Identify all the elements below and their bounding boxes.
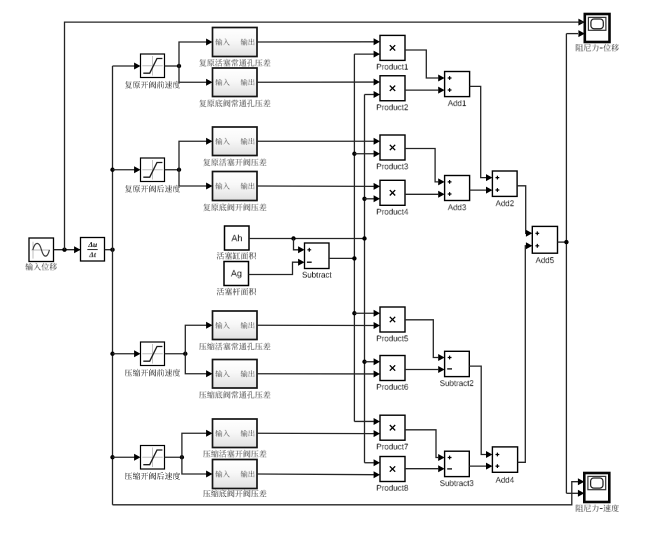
product block Product5 <box>380 307 405 332</box>
wire branch up to sub1 <box>179 42 207 66</box>
label text "Add4" under Add4 <box>496 477 514 483</box>
arrowhead into Product8 in1 <box>374 459 380 466</box>
label text "Subtract2" under Subtract2 <box>440 380 474 386</box>
wire velocity to sat1 <box>113 65 135 67</box>
wire sine output to derivative input <box>54 249 81 251</box>
wire Product5 out to Subtract2 in1 <box>405 320 438 358</box>
wire piston bus tap to Product4 in2 <box>365 198 374 200</box>
arrowhead into Product5 in1 <box>374 310 380 317</box>
wire Add3 out to Add2 in2 <box>470 189 486 191</box>
arrowhead into Product4 <box>374 183 380 190</box>
wire sub3 to Product3 in1 <box>257 140 374 142</box>
label text "复原底阀常通孔压差" under sub2 <box>199 99 270 107</box>
wire branch down to sub2 <box>179 66 207 82</box>
junction node sine-output branch <box>62 248 66 252</box>
saturation block 复原开阀前速度 (sat1) <box>141 54 165 78</box>
label text "Ah" inside Ah block <box>231 235 242 242</box>
label text "Product1" under Product1 <box>377 64 409 70</box>
label text "活塞缸面积" under Ah <box>217 252 256 260</box>
arrowhead into Add2 in1 <box>486 174 492 181</box>
junction node sat branch at (179,169.75) <box>177 168 181 172</box>
subtract block Subtract (Ah-Ag) <box>305 243 330 269</box>
wire sub8 to Product8 in2 <box>257 473 374 476</box>
wire Ah branch down to Subtract + <box>294 239 299 250</box>
label text "复原底阀开阀压差" under sub4 <box>203 203 266 211</box>
product block Product6 <box>380 356 405 381</box>
wire Product4 out to Add3 in2 <box>405 193 438 195</box>
label text "复原开阀后速度" under sat2 <box>125 185 180 193</box>
junction node velocity to sat4 <box>110 455 114 459</box>
subsystem block 复原底阀常通孔压差 (sub2) <box>213 68 258 97</box>
label text "Subtract3" under Subtract3 <box>440 480 474 486</box>
constant block Ag 活塞杆面积 <box>224 262 249 286</box>
wire Add5 output stub <box>558 241 567 243</box>
wire branch down to sub6 <box>185 354 206 374</box>
label text "压缩底阀常通孔压差" under sub6 <box>199 391 270 399</box>
arrowhead into Product6 <box>374 370 380 377</box>
arrowhead into sat4 <box>134 454 140 461</box>
product block Product7 <box>380 415 405 440</box>
label text "Add5" under Add5 <box>536 257 555 263</box>
arrowhead into sub8 <box>206 471 212 478</box>
arrowhead into Add1 in1 <box>438 75 444 82</box>
wire piston bus top corner to Product2 in2 <box>365 94 374 96</box>
arrowhead into Subtract - <box>298 259 304 266</box>
product block Product3 <box>380 135 405 160</box>
arrowhead into sat1 <box>134 63 140 70</box>
wire stub into scope1 in1 <box>578 21 585 23</box>
label text "Product8" under Product8 <box>377 485 409 491</box>
wire branch up to sub5 <box>185 325 206 354</box>
subsystem block 压缩活塞开阀压差 (sub7) <box>213 419 258 448</box>
wire piston bus tap to Product6 in1 <box>365 361 374 363</box>
label text "Product6" under Product6 <box>377 384 409 390</box>
wire annular bus top corner to Product1 in2 <box>354 53 373 55</box>
wire Ag output to Subtract - <box>249 262 299 274</box>
arrowhead into Subtract2 in1 <box>438 354 444 361</box>
arrowhead into Product8 <box>374 471 380 478</box>
junction node Add5 output joins force bus <box>564 240 568 244</box>
saturation block 压缩开阀前速度 (sat3) <box>141 342 165 366</box>
sum block Subtract2 <box>445 351 470 376</box>
arrowhead into Product3 in2 <box>374 150 380 157</box>
arrowhead into Subtract3 in2 <box>438 465 444 472</box>
arrowhead into Subtract2 in2 <box>438 366 444 373</box>
arrowhead into sat3 <box>134 350 140 357</box>
arrowhead into sub7 <box>206 430 212 437</box>
label text "阻尼力-速度" under scope2 <box>576 504 619 512</box>
label text "Product2" under Product2 <box>377 104 409 110</box>
wire Add2 out corner stub <box>525 232 527 234</box>
junction node Subtract output joins bus <box>352 256 356 260</box>
junction node piston bus to Product4 <box>362 197 366 201</box>
wire derivative output stub <box>105 249 113 251</box>
label text "压缩活塞开阀压差" under sub7 <box>203 450 266 458</box>
junction node sat branch at (181.9,457.25) <box>180 455 184 459</box>
wire Ah output across to piston-area bus <box>249 238 365 240</box>
label text "Add2" under Add2 <box>496 200 514 206</box>
junction node sat branch at (185.3,353.75) <box>183 352 187 356</box>
junction node sat branch at (179,66) <box>177 64 181 68</box>
wire sub2 to Product2 in1 <box>257 81 374 83</box>
wire Subtract2 out to Add4 in1 <box>469 366 486 454</box>
label text "Subtract" under Subtract <box>303 272 332 278</box>
subsystem block 压缩底阀常通孔压差 (sub6) <box>213 360 258 389</box>
wire Add4 out to Add5 in2 <box>518 246 526 462</box>
arrowhead into Add1 in2 <box>438 87 444 94</box>
arrowhead into Add4 in2 <box>486 463 492 470</box>
arrowhead into sub5 <box>206 322 212 329</box>
junction node velocity to sat3 <box>110 352 114 356</box>
label text "输入位移" under sine source <box>26 263 57 271</box>
product block Product4 <box>380 180 405 205</box>
arrowhead into scope2 input 2 <box>578 490 584 497</box>
wire velocity to sat4 <box>113 456 135 458</box>
wire annular-area bus (Subtract output) vertical x=354.4 <box>353 54 355 421</box>
wire Product8 out to Subtract3 in2 <box>405 468 438 470</box>
wire branch up to sub3 <box>179 141 207 170</box>
arrowhead into Product2 <box>374 79 380 86</box>
junction node velocity to sat2 <box>110 168 114 172</box>
arrowhead into Add2 in2 <box>486 187 492 194</box>
wire velocity to sat3 <box>113 353 135 355</box>
label text "Product4" under Product4 <box>377 209 409 215</box>
wire Product7 out to Subtract3 in1 <box>405 430 438 458</box>
wire sub4 to Product4 in1 <box>257 185 374 187</box>
arrowhead into Add3 in1 <box>438 178 444 185</box>
label text "压缩底阀开阀压差" under sub8 <box>203 490 266 498</box>
arrowhead into sat2 <box>134 166 140 173</box>
source block 输入位移 (sine wave) <box>29 238 54 262</box>
junction node Ah output joins bus <box>362 236 366 240</box>
wire annular bus tap to Product5 in1 <box>354 312 373 314</box>
wire piston bus bottom corner to Product8 in1 <box>365 462 374 464</box>
product block Product2 <box>380 76 405 101</box>
wire damping-force bus vertical x=566.4 <box>565 34 567 494</box>
wire branch up to sub7 <box>182 433 207 457</box>
label text "阻尼力-位移" under scope1 <box>576 44 619 52</box>
junction node Ah branch to Subtract <box>291 236 295 240</box>
label text "Du" numerator in derivative block <box>88 242 97 248</box>
arrowhead into sub1 <box>206 39 212 46</box>
arrowhead into scope1 input 2 <box>578 30 584 37</box>
wire Subtract3 out to Add4 in2 <box>469 465 486 467</box>
wire Product3 out to Add3 in1 <box>405 149 438 182</box>
arrowhead into Product5 <box>374 322 380 329</box>
label text "压缩活塞常通孔压差" under sub5 <box>199 342 270 350</box>
label text "复原活塞常通孔压差" under sub1 <box>199 59 270 67</box>
wire Add1 out to Add2 in1 <box>470 86 486 177</box>
wire force bus top corner to scope1 in2 <box>566 33 578 35</box>
arrowhead into sub4 <box>206 183 212 190</box>
arrowhead into Product3 <box>374 138 380 145</box>
label text "Ag" inside Ag block <box>231 270 242 279</box>
wire sat output to branch node <box>165 353 186 355</box>
wire sat output to branch node <box>165 65 180 67</box>
arrowhead into scope1 input 1 <box>578 19 584 26</box>
label text "Product3" under Product3 <box>377 163 409 169</box>
arrowhead into Product1 in2 <box>374 51 380 58</box>
wire force bus bottom corner to scope2 in2 <box>566 492 578 494</box>
label text "Add3" under Add3 <box>448 204 467 210</box>
wire branch down to sub4 <box>179 170 207 186</box>
scope block 阻尼力-速度 (scope2) <box>584 473 609 502</box>
wire sat output to branch node <box>165 169 180 171</box>
arrowhead into Product7 <box>374 430 380 437</box>
arrowhead into sub6 <box>206 370 212 377</box>
subsystem block 复原底阀开阀压差 (sub4) <box>213 172 258 201</box>
label text "复原开阀前速度" under sat1 <box>125 81 180 89</box>
arrowhead into derivative <box>74 246 80 253</box>
arrowhead into Product2 in2 <box>374 91 380 98</box>
sum block Add5 <box>532 226 557 253</box>
arrowhead into sub2 <box>206 79 212 86</box>
wire sub6 to Product6 in2 <box>257 373 374 375</box>
subsystem block 压缩活塞常通孔压差 (sub5) <box>213 311 258 340</box>
wire sub1 to Product1 in1 <box>257 41 374 43</box>
wire Add2 out up... to Add5 in1 <box>517 186 526 234</box>
wire Product1 out to Add1 in1 <box>405 50 438 78</box>
arrowhead into Add5 in2 <box>526 242 532 249</box>
arrowhead into Product6 in1 <box>374 358 380 365</box>
sum block Add4 <box>492 447 517 472</box>
arrowhead into Subtract + <box>298 246 304 253</box>
subsystem block 复原活塞开阀压差 (sub3) <box>213 127 258 156</box>
junction node annular bus to Product5 <box>352 311 356 315</box>
label text "活塞杆面积" under Ag <box>217 288 256 296</box>
sum block Add1 <box>445 72 470 97</box>
derivative block Δu/Δt <box>81 238 105 262</box>
wire velocity vertical bus <box>112 66 114 505</box>
saturation block 压缩开阀后速度 (sat4) <box>141 446 165 470</box>
sum block Add2 <box>492 171 517 196</box>
saturation block 复原开阀后速度 (sat2) <box>141 158 165 182</box>
wire displacement feed to scope1 (up-over) <box>65 22 579 250</box>
arrowhead into Product7 in1 <box>374 418 380 425</box>
label text "压缩开阀后速度" under sat4 <box>125 472 180 480</box>
scope block 阻尼力-位移 (scope1) <box>585 14 610 42</box>
wire velocity to sat2 <box>113 169 135 171</box>
arrowhead into Product1 <box>374 38 380 45</box>
subsystem block 压缩底阀开阀压差 (sub8) <box>213 460 258 489</box>
label text "Product5" under Product5 <box>377 335 409 341</box>
arrowhead into Add5 in1 <box>526 230 532 237</box>
arrowhead into Add3 in2 <box>438 191 444 198</box>
product block Product8 <box>380 457 405 482</box>
subsystem block 复原活塞常通孔压差 (sub1) <box>213 28 258 57</box>
arrowhead into sub3 <box>206 138 212 145</box>
sum block Add3 <box>445 176 470 201</box>
wire sat output to branch node <box>165 456 182 458</box>
junction node piston bus to Product6 <box>362 360 366 364</box>
wire annular bus tap to Product3 in2 <box>354 153 373 155</box>
label text "Dt" denominator in derivative block <box>89 252 97 258</box>
sum block Subtract3 <box>445 451 470 476</box>
wire Product6 out to Subtract2 in2 <box>405 369 438 371</box>
arrowhead into Product4 in2 <box>374 195 380 202</box>
wire Product2 out to Add1 in2 <box>405 89 438 91</box>
junction node annular bus to Product3 <box>352 152 356 156</box>
arrowhead into Subtract3 in1 <box>438 454 444 461</box>
wire sub5 to Product5 in2 <box>257 324 374 326</box>
wire piston-area bus (Ah) vertical x=364.5 <box>364 95 366 463</box>
label text "压缩开阀前速度" under sat3 <box>125 369 180 377</box>
constant block Ah 活塞缸面积 <box>225 226 250 250</box>
wire Subtract output to annular-area bus <box>329 257 354 259</box>
arrowhead into Add4 in1 <box>486 451 492 458</box>
product block Product1 <box>380 35 405 60</box>
junction node velocity bus <box>110 248 114 252</box>
label text "复原活塞开阀压差" under sub3 <box>203 158 266 166</box>
wire branch down to sub8 <box>182 457 207 474</box>
arrowhead into scope2 input 1 <box>578 478 584 485</box>
label text "Product7" under Product7 <box>377 444 409 450</box>
label text "Add1" under Add1 <box>448 100 467 106</box>
wire velocity feed along bottom to scope2 input 1 <box>113 482 579 505</box>
wire annular bus bottom corner to Product7 in1 <box>354 420 373 422</box>
wire sub7 to Product7 in2 <box>257 432 374 434</box>
